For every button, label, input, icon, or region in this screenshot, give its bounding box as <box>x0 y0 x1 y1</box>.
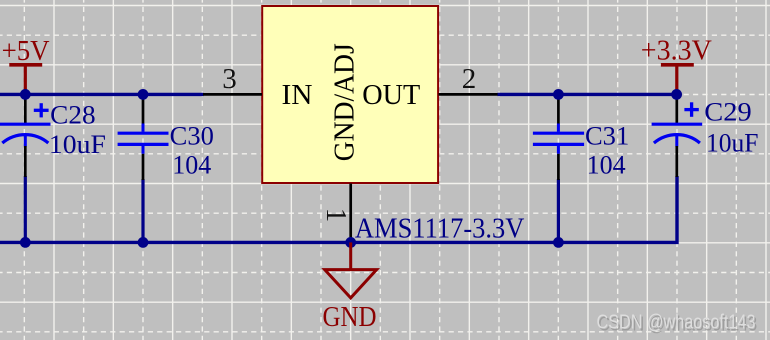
wire C30 to GND bus <box>141 179 144 242</box>
capacitor C29 (polarized 10uF) <box>652 96 759 177</box>
C29 lower lead <box>675 135 678 147</box>
wire C31 to GND bus <box>557 179 560 242</box>
svg-text:+5V: +5V <box>2 36 50 67</box>
wire C28 to GND bus <box>24 176 27 242</box>
pin 1 (GND/ADJ) <box>349 184 352 243</box>
svg-text:+3.3V: +3.3V <box>641 35 712 66</box>
C30 bottom pin <box>142 154 145 180</box>
C28 polarity plus <box>34 109 49 112</box>
junction pin1 / GND <box>345 237 356 248</box>
ground GND <box>323 242 377 333</box>
C29 bottom pin <box>675 146 678 177</box>
svg-text:GND/ADJ: GND/ADJ <box>330 43 361 161</box>
junction +3.3V / C29 <box>671 89 682 100</box>
svg-text:104: 104 <box>172 151 211 180</box>
svg-text:1: 1 <box>320 208 352 223</box>
C28 top pin <box>24 96 27 124</box>
C30 top pin <box>142 96 145 124</box>
junction C28 bottom <box>20 237 31 248</box>
C29 polarity plus <box>684 108 698 111</box>
wire GND bus (bottom horizontal with corner up to C29) <box>0 176 677 242</box>
svg-text:OUT: OUT <box>362 80 420 111</box>
junction C30 top <box>138 89 149 100</box>
junction C31 bottom <box>553 237 564 248</box>
svg-text:104: 104 <box>587 151 626 180</box>
svg-text:CSDN @whaosoft143: CSDN @whaosoft143 <box>597 312 756 334</box>
svg-text:3: 3 <box>222 63 237 95</box>
C31 bottom pin <box>557 154 560 180</box>
C29 top pin <box>675 96 678 124</box>
C28 bottom pin <box>24 146 27 177</box>
C30 plates <box>118 132 169 135</box>
capacitor C31 (104) <box>533 96 629 180</box>
wire net +3.3V (top right horizontal) <box>498 93 677 96</box>
svg-text:C31: C31 <box>585 122 629 151</box>
C28 lower lead <box>24 135 27 147</box>
svg-text:IN: IN <box>282 80 313 111</box>
C31 upper lead <box>557 124 560 132</box>
watermark CSDN <box>597 312 758 336</box>
svg-text:10uF: 10uF <box>49 130 106 159</box>
svg-text:2: 2 <box>462 63 477 95</box>
wire net +5V (top left horizontal) <box>0 93 204 96</box>
pin 3 (IN) <box>203 93 262 96</box>
svg-text:10uF: 10uF <box>706 129 759 158</box>
junction C31 top <box>553 89 564 100</box>
C30 lower lead <box>142 146 145 154</box>
junction C30 bottom <box>138 237 149 248</box>
C30 upper lead <box>142 124 145 132</box>
svg-text:C30: C30 <box>170 122 214 151</box>
regulator U1 AMS1117-3.3V body <box>262 6 438 183</box>
capacitor C30 (104) <box>118 96 214 180</box>
power symbol +3.3V <box>641 35 712 94</box>
pin 2 (OUT) <box>439 93 498 96</box>
junction +5V / C28 <box>20 89 31 100</box>
svg-text:AMS1117-3.3V: AMS1117-3.3V <box>355 212 525 244</box>
capacitor C28 (polarized 10uF) <box>0 96 106 177</box>
C28 straight plate <box>0 123 51 126</box>
svg-text:C28: C28 <box>50 100 95 129</box>
svg-text:C29: C29 <box>704 98 751 127</box>
C28 curved plate <box>2 135 48 143</box>
C29 curved plate <box>654 135 700 143</box>
C31 top pin <box>557 96 560 124</box>
C31 lower lead <box>557 146 560 154</box>
C31 plates <box>533 132 584 135</box>
power symbol +5V <box>2 36 50 95</box>
svg-text:GND: GND <box>323 302 377 333</box>
C29 straight plate <box>652 123 703 126</box>
